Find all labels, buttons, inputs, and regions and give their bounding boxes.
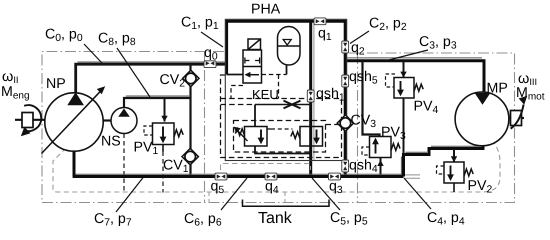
wire C4 from motor to tank line (404, 145, 484, 177)
wire left center valve feed and bottom (255, 105, 311, 154)
center dashed box outer (221, 75, 342, 158)
label PV3 (381, 125, 406, 143)
sensor q1 (314, 18, 326, 25)
label NP (46, 76, 66, 92)
svg-text:MP: MP (487, 81, 508, 97)
wire PV2 feed stub (453, 149, 455, 163)
label q5 (211, 179, 225, 197)
wire C8 charge line from NS (124, 98, 191, 108)
label MP (487, 81, 508, 97)
label NS (101, 134, 121, 150)
housing dashed boundary (53, 140, 500, 192)
wire C4 companion (401, 146, 481, 175)
leader line C4 (404, 178, 431, 209)
label qsh4 (349, 158, 378, 176)
wire PV4 feed stub (403, 61, 405, 78)
label C3, p3 (419, 34, 457, 52)
KEU dashed right port line (262, 75, 287, 99)
wire tank line (73, 175, 404, 178)
label M eng (1, 84, 30, 102)
label C7, p7 (94, 211, 132, 229)
check valve CV2 (183, 70, 199, 86)
sensor qsh1 (307, 90, 314, 102)
wire C7 drop from NP (73, 151, 76, 177)
label q0 (204, 45, 218, 63)
dashed tick center (284, 192, 286, 203)
wire PV2 drain (453, 183, 455, 192)
relief valve PV2 (444, 156, 473, 183)
dashed pilot line to CV3 (326, 124, 341, 126)
label CV2 (160, 72, 186, 90)
wire X-throttle line (221, 104, 311, 106)
sensor q5 (215, 173, 227, 180)
relief valve PV4 (394, 72, 423, 98)
svg-text:PHA: PHA (251, 2, 281, 18)
wire PV4 drain (403, 98, 405, 155)
motor shaft (509, 96, 527, 129)
PV3 pilot dashed (362, 147, 370, 155)
wire q1 center vertical (309, 21, 312, 176)
label q3 (329, 179, 343, 197)
svg-text:Tank: Tank (258, 210, 293, 227)
leader line C7 (116, 177, 144, 212)
svg-text:KEU: KEU (252, 87, 279, 102)
wire tank line thin stub (405, 175, 420, 178)
accumulator (278, 27, 301, 66)
wire NS drain dashed (123, 134, 125, 193)
KEU dashed bottom drain (231, 86, 243, 99)
PV2 pilot dashed (437, 166, 445, 174)
sensor q4 (265, 173, 277, 180)
sensor qsh5 (342, 75, 349, 87)
tank bracket (243, 200, 330, 207)
label C6, p6 (184, 211, 222, 229)
label C2, p2 (369, 16, 407, 34)
sensor qsh4 (342, 160, 349, 172)
svg-text:NP: NP (46, 76, 66, 92)
label qsh1 (316, 86, 345, 104)
label C4, p4 (427, 210, 465, 228)
label KEU (252, 87, 279, 102)
gray dashed control-block underline (221, 164, 311, 171)
chain-line system boundary box (42, 52, 515, 203)
leader line C2 (350, 31, 369, 44)
chain-line divider left unit (204, 52, 206, 203)
motor MP (455, 92, 509, 146)
sensor q0 (204, 61, 216, 68)
leader line C1 (201, 32, 223, 47)
label PV2 (468, 178, 493, 196)
variable throttle X (284, 101, 301, 109)
label q1 (318, 26, 332, 44)
wire NS companion (126, 95, 189, 97)
wire PV3 top branch to C3 (363, 61, 380, 137)
label PHA (251, 2, 281, 18)
leader line C6 (221, 178, 247, 210)
label CV3 (351, 113, 377, 131)
center valve left (234, 127, 267, 147)
label qsh5 (349, 69, 378, 87)
svg-text:NS: NS (101, 134, 121, 150)
wire PV1 feed stub (164, 98, 166, 122)
leader line C8 (117, 48, 150, 97)
relief valve PV1 (153, 116, 184, 145)
label Tank (258, 210, 293, 227)
check valve CV3 (337, 115, 353, 131)
wire C0 with NP top stub (76, 64, 227, 92)
wire C0 companion (78, 61, 226, 63)
label C8, p8 (98, 31, 136, 49)
center valve right (291, 127, 323, 147)
dashed tick left (208, 192, 210, 203)
pilot line between center valves (267, 128, 293, 130)
wire tank companion (76, 173, 403, 175)
label M mot (516, 85, 545, 103)
PV1 pilot dashed (144, 126, 153, 135)
label C1, p1 (181, 15, 219, 33)
accumulator stub (286, 65, 288, 75)
wire q1 vertical thin companion (313, 23, 315, 160)
leader line C5 (312, 178, 340, 210)
engine shaft (15, 105, 45, 136)
label CV1 (163, 158, 189, 176)
label omega III (518, 71, 537, 87)
label PV4 (414, 99, 439, 117)
center dashed box inner (234, 121, 326, 153)
label omega II (2, 69, 19, 85)
label PV1 (134, 140, 159, 158)
sensor q3 (329, 173, 341, 180)
label q2 (351, 40, 365, 58)
wire C1 riser top run and q2 drop (227, 21, 346, 176)
label q4 (265, 179, 279, 197)
sensor q2 (342, 41, 349, 53)
wire CV2/CV1 column (189, 64, 191, 176)
chain-line divider right unit (357, 53, 359, 203)
wire C3 companion (347, 57, 482, 59)
label C5, p5 (330, 210, 368, 228)
PHA block outline (225, 19, 346, 160)
label C0, p0 (45, 27, 83, 45)
leader line C3 (385, 50, 428, 61)
relief valve PV3 (370, 137, 401, 167)
wire PV3 drain (380, 158, 382, 177)
wire NP-NS link (103, 119, 111, 121)
wire C3 to motor (345, 61, 484, 93)
leader line C0 (84, 44, 102, 63)
PV4 pilot dashed (386, 74, 396, 87)
wire KEU main port (227, 74, 243, 76)
pump NP (42, 86, 106, 153)
charge pump NS (111, 108, 137, 134)
valve KEU (243, 39, 262, 83)
check valve CV1 (182, 148, 198, 164)
wire PV1 drain (162, 145, 164, 193)
